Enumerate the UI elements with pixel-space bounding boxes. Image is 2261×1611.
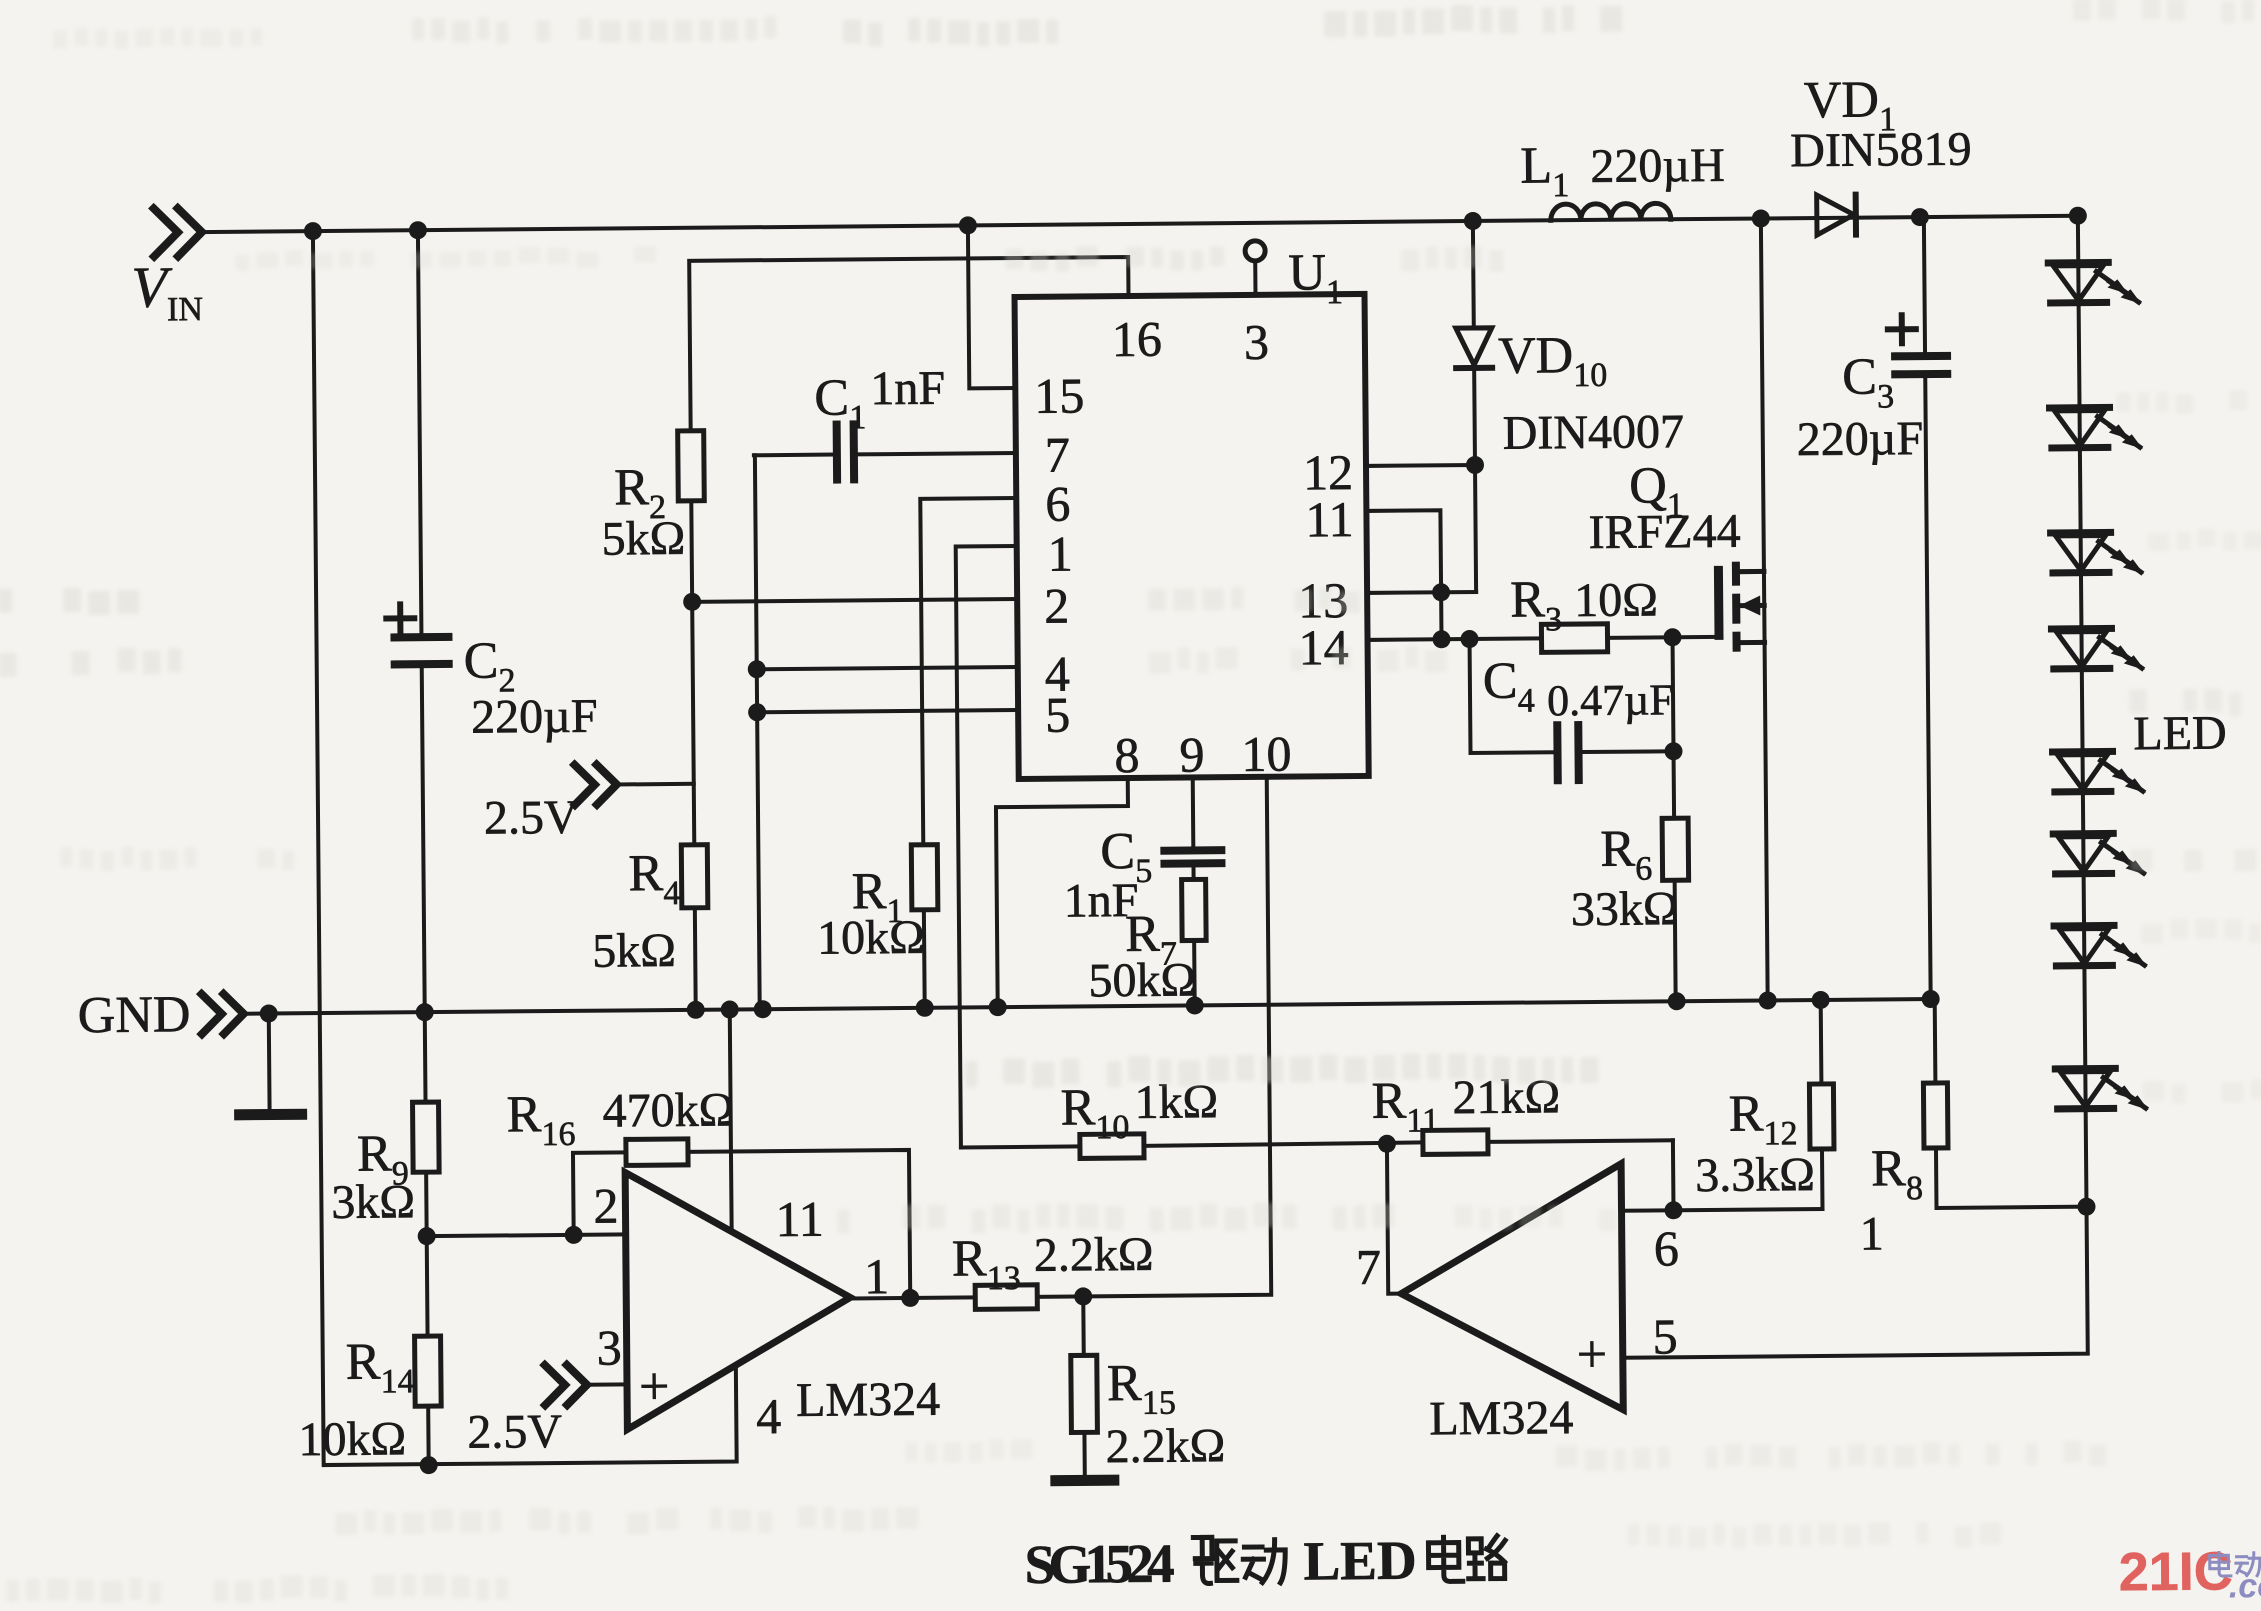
svg-text:3: 3 (1244, 314, 1269, 370)
svg-text:LM324: LM324 (796, 1373, 940, 1427)
svg-text:LED: LED (2133, 706, 2227, 760)
svg-text:1nF: 1nF (870, 362, 945, 416)
svg-text:9: 9 (1179, 726, 1204, 782)
svg-text:3kΩ: 3kΩ (331, 1175, 415, 1229)
svg-text:10kΩ: 10kΩ (817, 911, 925, 965)
svg-text:2.5V: 2.5V (467, 1405, 562, 1459)
svg-text:1: 1 (1859, 1207, 1883, 1260)
svg-text:4: 4 (756, 1388, 781, 1444)
svg-text:10: 10 (1241, 726, 1291, 782)
svg-text:5: 5 (1652, 1308, 1677, 1364)
svg-text:0.47µF: 0.47µF (1547, 675, 1674, 725)
svg-text:2.2kΩ: 2.2kΩ (1105, 1419, 1225, 1473)
svg-text:5kΩ: 5kΩ (601, 512, 685, 566)
svg-text:15: 15 (1034, 367, 1084, 423)
svg-text:5: 5 (1045, 687, 1070, 743)
svg-text:10Ω: 10Ω (1574, 573, 1658, 627)
svg-text:SG1524: SG1524 (1024, 1533, 1175, 1595)
svg-text:2: 2 (1044, 578, 1069, 634)
svg-text:470kΩ: 470kΩ (602, 1083, 734, 1137)
svg-text:DIN5819: DIN5819 (1790, 123, 1972, 178)
svg-text:+: + (1577, 1324, 1608, 1384)
svg-text:3.3kΩ: 3.3kΩ (1695, 1148, 1815, 1202)
svg-text:33kΩ: 33kΩ (1571, 882, 1679, 936)
svg-text:8: 8 (1114, 727, 1139, 783)
svg-text:50kΩ: 50kΩ (1088, 953, 1196, 1007)
svg-text:11: 11 (1305, 491, 1354, 547)
svg-text:1: 1 (1048, 525, 1073, 581)
svg-text:220µF: 220µF (471, 690, 598, 744)
svg-text:2.2kΩ: 2.2kΩ (1034, 1228, 1154, 1282)
svg-text:220µF: 220µF (1797, 412, 1924, 466)
svg-text:5kΩ: 5kΩ (592, 924, 676, 978)
svg-text:6: 6 (1045, 476, 1070, 532)
svg-text:16: 16 (1112, 311, 1162, 367)
svg-text:2.5V: 2.5V (484, 791, 579, 845)
svg-text:+: + (639, 1356, 670, 1416)
svg-text:IRFZ44: IRFZ44 (1588, 505, 1740, 559)
svg-text:.com: .com (2229, 1567, 2261, 1606)
svg-text:LM324: LM324 (1429, 1391, 1573, 1445)
svg-text:10kΩ: 10kΩ (298, 1412, 406, 1466)
svg-text:1kΩ: 1kΩ (1134, 1075, 1218, 1129)
svg-text:DIN4007: DIN4007 (1502, 405, 1684, 460)
svg-text:21IC: 21IC (2118, 1541, 2233, 1602)
svg-text:1: 1 (864, 1248, 889, 1304)
svg-text:6: 6 (1654, 1220, 1679, 1276)
svg-text:2: 2 (593, 1177, 618, 1233)
svg-text:220µH: 220µH (1590, 139, 1725, 193)
svg-text:3: 3 (596, 1319, 621, 1375)
svg-text:GND: GND (78, 986, 191, 1044)
svg-text:LED: LED (1303, 1530, 1417, 1592)
svg-text:11: 11 (775, 1191, 824, 1247)
svg-text:7: 7 (1045, 427, 1070, 483)
svg-text:7: 7 (1356, 1239, 1381, 1295)
